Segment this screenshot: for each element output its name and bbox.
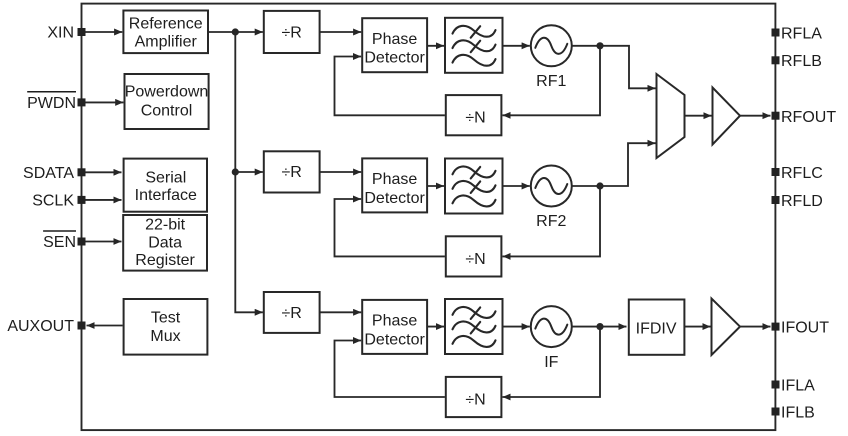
svg-text:RF1: RF1 [536,73,566,90]
pin RFLA square [772,29,780,37]
svg-text:÷R: ÷R [282,164,302,181]
pin IFLA square [772,381,780,389]
node trunk junction row1 [232,28,239,35]
svg-text:RFLB: RFLB [781,53,822,70]
svg-text:RFLA: RFLA [781,25,822,42]
wire divider R3 to Phase Detector 3 [320,311,362,313]
wire junction RF2 to mux bottom input [600,143,656,186]
wire junction IF to IFDIV [600,326,627,328]
wire RF buffer to RFOUT [740,115,771,117]
block divider N1 [446,95,502,135]
svg-text:IFDIV: IFDIV [636,321,677,338]
wire Test Mux to AUXOUT [87,325,123,327]
wire VCO IF to junction [572,326,600,328]
svg-text:IF: IF [544,354,558,371]
block IFDIV [629,300,685,355]
block divider N3 [446,377,502,417]
wire IFDIV to IF buffer [685,326,711,328]
wire divider R2 to Phase Detector 2 [320,171,362,173]
svg-text:SEN: SEN [43,234,76,251]
PWDN overline [27,91,76,93]
svg-text:÷R: ÷R [282,25,302,42]
svg-text:RFLD: RFLD [781,193,823,210]
block loop filter 1 [445,18,503,73]
svg-text:Phase: Phase [372,31,417,48]
wire Phase Detector 1 to loop filter 1 [428,45,445,47]
svg-text:Data: Data [148,235,182,252]
svg-text:Interface: Interface [135,187,197,204]
svg-text:÷N: ÷N [465,392,485,409]
node junction RF1 [596,42,603,49]
svg-text:Control: Control [141,103,193,120]
pin SDATA square [78,168,86,176]
svg-text:÷N: ÷N [465,251,485,268]
pin PWDN square [78,98,86,106]
block Serial Interface [124,159,207,212]
svg-text:Reference: Reference [129,15,203,32]
wire trunk vertical [235,32,263,312]
svg-text:Detector: Detector [364,190,425,207]
wire junction RF2 to divider N2 [503,186,601,256]
wire divider N3 to Phase Detector 3 feedback [335,341,445,398]
block Phase Detector 3 [362,300,427,354]
svg-text:Powerdown: Powerdown [125,83,209,100]
wire PWDN to Powerdown Control [86,101,124,103]
wire Phase Detector 2 to loop filter 2 [428,185,445,187]
svg-text:RFOUT: RFOUT [781,109,836,126]
svg-text:22-bit: 22-bit [145,216,186,233]
svg-text:Phase: Phase [372,171,417,188]
node trunk junction row2 [232,168,239,175]
wire mux to RF buffer [685,115,712,117]
pin RFLB square [772,56,780,64]
pin RFOUT square [772,112,780,120]
pin IFLB square [772,408,780,416]
block Reference Amplifier [123,11,208,54]
svg-text:÷R: ÷R [282,305,302,322]
wire junction RF1 to divider N1 [503,46,601,116]
svg-text:IFLB: IFLB [781,404,815,421]
block divider N2 [446,236,502,276]
block divider R3 [264,292,320,333]
wire XIN to Reference Amplifier [86,31,123,33]
block Powerdown Control [125,74,209,129]
pin AUXOUT square [78,322,86,330]
wire loop filter 3 to VCO IF [503,326,530,328]
oscillator RF2 [531,166,572,231]
pin RFLC square [772,168,780,176]
wire trunk to divider R2 [235,171,263,173]
block loop filter 2 [445,159,503,214]
svg-text:Serial: Serial [145,170,186,187]
wire divider R1 to Phase Detector 1 [320,31,362,33]
svg-text:Detector: Detector [364,331,425,348]
block loop filter 3 [445,299,503,354]
node junction IF [596,323,603,330]
svg-text:IFLA: IFLA [781,377,815,394]
wire junction RF1 to mux top input [600,46,656,89]
oscillator IF [531,306,572,371]
block divider R1 [264,11,320,53]
buffer IF output [712,299,741,356]
svg-text:Register: Register [135,252,195,269]
svg-text:Mux: Mux [150,328,180,345]
block Phase Detector 1 [362,18,427,72]
svg-text:SCLK: SCLK [32,193,74,210]
wire divider N1 to Phase Detector 1 feedback [335,57,445,116]
svg-text:Amplifier: Amplifier [135,33,198,50]
wire junction IF to divider N3 [503,327,601,397]
svg-text:Test: Test [151,310,181,327]
wire SCLK to Serial Interface [86,199,122,201]
wire divider N2 to Phase Detector 2 feedback [335,199,445,256]
pin SCLK square [78,196,86,204]
svg-text:XIN: XIN [47,25,74,42]
svg-text:Phase: Phase [372,313,417,330]
wire SEN to 22-bit Data Register [86,241,122,243]
pin RFLD square [772,196,780,204]
svg-text:PWDN: PWDN [27,95,76,112]
mux RF output select [657,74,685,158]
wire VCO RF2 to junction [572,185,600,187]
block 22-bit Data Register [123,215,207,271]
svg-text:SDATA: SDATA [23,165,74,182]
wire Reference Amplifier to divider R1 [208,31,263,33]
svg-text:IFOUT: IFOUT [781,319,829,336]
svg-text:Detector: Detector [364,50,425,67]
svg-text:RF2: RF2 [536,213,566,230]
oscillator RF1 [531,25,572,90]
SEN overline [43,230,76,232]
wire loop filter 1 to VCO RF1 [503,45,530,47]
wire Phase Detector 3 to loop filter 3 [428,326,445,328]
wire SDATA to Serial Interface [86,171,122,173]
node junction RF2 [596,182,603,189]
wire VCO RF1 to junction [572,45,600,47]
pin SEN square [78,238,86,246]
svg-text:RFLC: RFLC [781,165,823,182]
wire IF buffer to IFOUT [740,326,771,328]
buffer RF output [713,88,741,145]
block divider R2 [264,151,320,192]
block Test Mux [124,299,208,355]
pin XIN square [78,28,86,36]
svg-text:AUXOUT: AUXOUT [7,318,74,335]
wire loop filter 2 to VCO RF2 [503,185,530,187]
svg-text:÷N: ÷N [465,110,485,127]
pin IFOUT square [772,323,780,331]
block Phase Detector 2 [362,158,427,212]
